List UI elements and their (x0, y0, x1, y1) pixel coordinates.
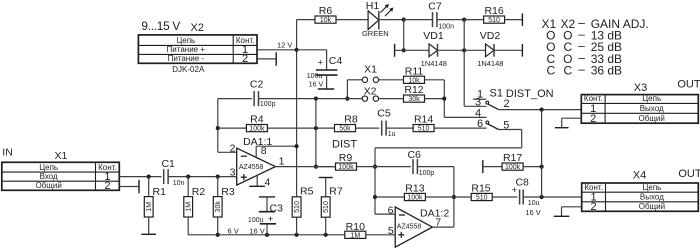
svg-text:OUT: OUT (678, 168, 700, 180)
svg-text:1N4148: 1N4148 (477, 59, 503, 68)
svg-text:R2: R2 (192, 186, 206, 198)
svg-text:510: 510 (476, 195, 488, 202)
svg-text:2: 2 (242, 53, 248, 65)
svg-text:5: 5 (388, 225, 394, 237)
svg-text:5: 5 (503, 120, 509, 132)
svg-text:100u: 100u (248, 217, 264, 224)
svg-text:1u: 1u (388, 131, 396, 138)
svg-text:+: + (268, 214, 274, 225)
svg-text:50k: 50k (339, 126, 351, 133)
svg-text:9...15 V: 9...15 V (141, 19, 180, 33)
svg-text:R8: R8 (344, 114, 358, 126)
svg-text:10k: 10k (320, 17, 332, 24)
svg-text:12 V: 12 V (277, 40, 292, 49)
svg-text:X2: X2 (191, 22, 204, 34)
svg-text:510: 510 (418, 126, 430, 133)
svg-text:R9: R9 (339, 152, 353, 164)
svg-text:X1: X1 (55, 150, 68, 162)
svg-text:–: – (578, 62, 585, 76)
svg-text:R4: R4 (250, 114, 264, 126)
svg-text:X2: X2 (364, 86, 377, 98)
svg-text:R10: R10 (346, 221, 365, 233)
svg-text:30k: 30k (215, 201, 222, 213)
svg-text:S1: S1 (490, 88, 503, 100)
svg-text:R5: R5 (300, 185, 314, 197)
svg-text:100k: 100k (338, 164, 354, 171)
svg-text:1M: 1M (350, 232, 360, 239)
svg-text:1N4148: 1N4148 (421, 59, 447, 68)
svg-text:Общий: Общий (35, 181, 61, 190)
svg-text:16 V: 16 V (249, 227, 264, 236)
svg-text:R17: R17 (503, 152, 522, 164)
svg-text:Выход: Выход (640, 193, 664, 202)
svg-text:+: + (318, 57, 324, 68)
svg-text:VD1: VD1 (423, 30, 444, 42)
svg-text:OUT: OUT (677, 79, 700, 91)
svg-text:1M: 1M (146, 202, 153, 212)
svg-text:Цепь: Цепь (642, 94, 661, 103)
svg-text:IN: IN (2, 146, 13, 158)
svg-text:C7: C7 (428, 0, 442, 12)
svg-text:8: 8 (261, 145, 267, 157)
svg-text:VD2: VD2 (480, 30, 501, 42)
svg-text:Общий: Общий (639, 114, 665, 123)
svg-text:100k: 100k (407, 195, 423, 202)
svg-text:Цепь: Цепь (642, 183, 661, 192)
svg-text:AZ4558: AZ4558 (397, 224, 422, 231)
svg-text:2: 2 (230, 143, 236, 155)
svg-text:X4: X4 (633, 170, 646, 182)
svg-text:100p: 100p (419, 170, 435, 177)
svg-text:510: 510 (294, 201, 301, 213)
svg-text:Выход: Выход (640, 104, 664, 113)
svg-text:10u: 10u (528, 200, 540, 207)
svg-text:H1: H1 (366, 0, 380, 12)
svg-text:C: C (563, 64, 572, 78)
svg-text:100k: 100k (505, 164, 521, 171)
svg-text:100p: 100p (260, 101, 276, 108)
svg-text:X3: X3 (634, 82, 647, 94)
svg-text:C6: C6 (407, 149, 421, 161)
svg-text:16 V: 16 V (525, 208, 540, 217)
svg-text:6: 6 (477, 118, 483, 130)
svg-text:2: 2 (591, 201, 597, 213)
svg-text:DIST_ON: DIST_ON (506, 88, 554, 100)
svg-text:2: 2 (590, 113, 596, 125)
svg-text:R16: R16 (484, 5, 503, 17)
svg-text:100k: 100k (249, 126, 265, 133)
svg-text:Цепь: Цепь (176, 36, 195, 45)
svg-text:C5: C5 (377, 108, 391, 120)
svg-text:C1: C1 (161, 158, 175, 170)
svg-text:Цепь: Цепь (39, 163, 58, 172)
svg-text:1: 1 (279, 155, 285, 167)
svg-text:GREEN: GREEN (362, 29, 389, 38)
svg-text:Питание -: Питание - (168, 54, 205, 63)
svg-text:C3: C3 (270, 202, 284, 214)
svg-text:1M: 1M (185, 202, 192, 212)
svg-text:36 dB: 36 dB (591, 64, 622, 78)
svg-text:R7: R7 (329, 185, 343, 197)
svg-text:DIST: DIST (332, 139, 357, 151)
svg-text:6 V: 6 V (228, 227, 239, 236)
svg-text:C: C (546, 64, 555, 78)
svg-text:R13: R13 (405, 183, 424, 195)
svg-text:Питание +: Питание + (167, 45, 206, 54)
svg-text:30k: 30k (408, 96, 420, 103)
svg-text:R1: R1 (153, 186, 167, 198)
svg-text:C2: C2 (250, 78, 264, 90)
svg-text:6: 6 (388, 205, 394, 217)
svg-text:DJK-02A: DJK-02A (172, 65, 205, 74)
svg-text:C4: C4 (329, 55, 343, 67)
svg-text:510: 510 (323, 201, 330, 213)
svg-text:R11: R11 (405, 65, 424, 77)
svg-text:100u: 100u (307, 73, 323, 80)
svg-text:Общий: Общий (639, 202, 665, 211)
svg-text:Вход: Вход (40, 172, 58, 181)
svg-text:Конт.: Конт. (584, 94, 603, 103)
svg-text:R12: R12 (404, 84, 423, 96)
svg-text:AZ4558: AZ4558 (239, 164, 264, 171)
svg-text:10n: 10n (173, 180, 185, 187)
svg-text:4: 4 (265, 176, 271, 188)
svg-text:R3: R3 (221, 186, 235, 198)
svg-text:R6: R6 (319, 5, 333, 17)
svg-text:R15: R15 (471, 183, 490, 195)
svg-text:C8: C8 (515, 177, 529, 189)
svg-text:2: 2 (104, 180, 110, 192)
svg-text:X1: X1 (364, 64, 377, 76)
svg-text:16 V: 16 V (309, 81, 324, 88)
svg-text:R14: R14 (414, 114, 433, 126)
svg-text:510: 510 (488, 17, 500, 24)
